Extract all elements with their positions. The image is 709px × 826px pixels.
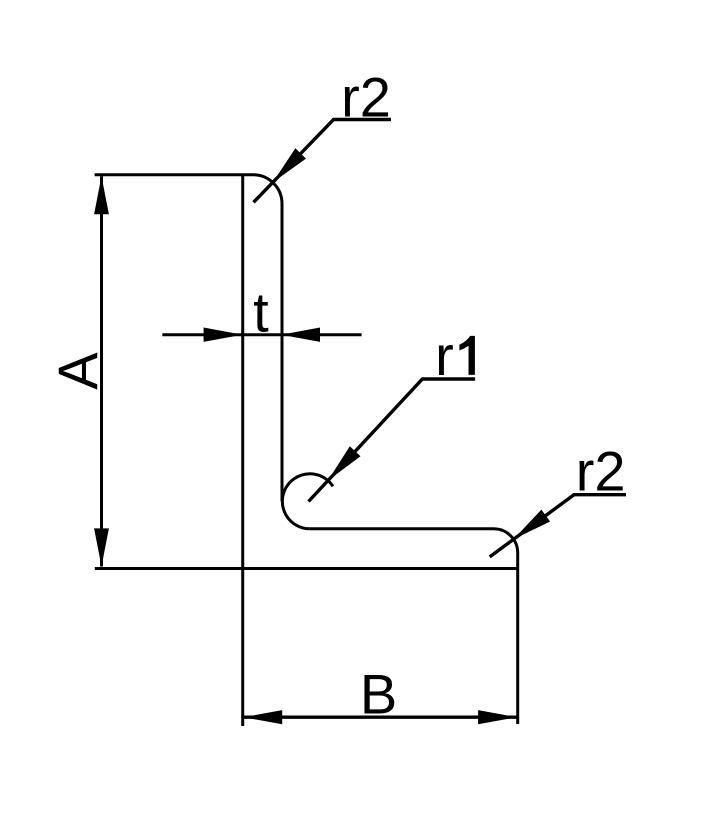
dimension t line [162, 333, 361, 336]
svg-text:r2: r2 [576, 440, 626, 503]
inner root radius arc r1 [282, 474, 333, 529]
vertical-leg left edge with extension line [241, 175, 244, 726]
arrowhead t left [204, 328, 243, 342]
label r1 digit 1 (custom glyph) [459, 336, 475, 375]
leader line r2 top [254, 120, 392, 203]
profile top edge with toe fillet and vertical-leg right edge [95, 175, 282, 502]
profile bottom edge [95, 567, 518, 570]
horizontal-leg top edge with toe fillet and right edge extension line [310, 529, 518, 724]
svg-text:r: r [435, 324, 454, 387]
arrowhead r1 leader [328, 446, 361, 480]
svg-text:B: B [360, 662, 397, 725]
svg-text:A: A [46, 352, 109, 390]
arrowhead t right [281, 328, 320, 342]
arrowhead r2 top leader [273, 148, 306, 182]
arrowhead A bottom [94, 528, 109, 566]
arrowhead r2 right leader [514, 510, 551, 540]
arrowhead B left [243, 710, 282, 724]
leader line r1 [309, 379, 476, 502]
arrowhead A top [94, 176, 109, 214]
arrowhead B right [478, 710, 517, 724]
leader line r2 right [490, 495, 626, 557]
dimension A line [100, 176, 103, 566]
svg-text:t: t [253, 281, 269, 344]
svg-text:r2: r2 [341, 65, 391, 128]
dimension B line [243, 716, 517, 719]
